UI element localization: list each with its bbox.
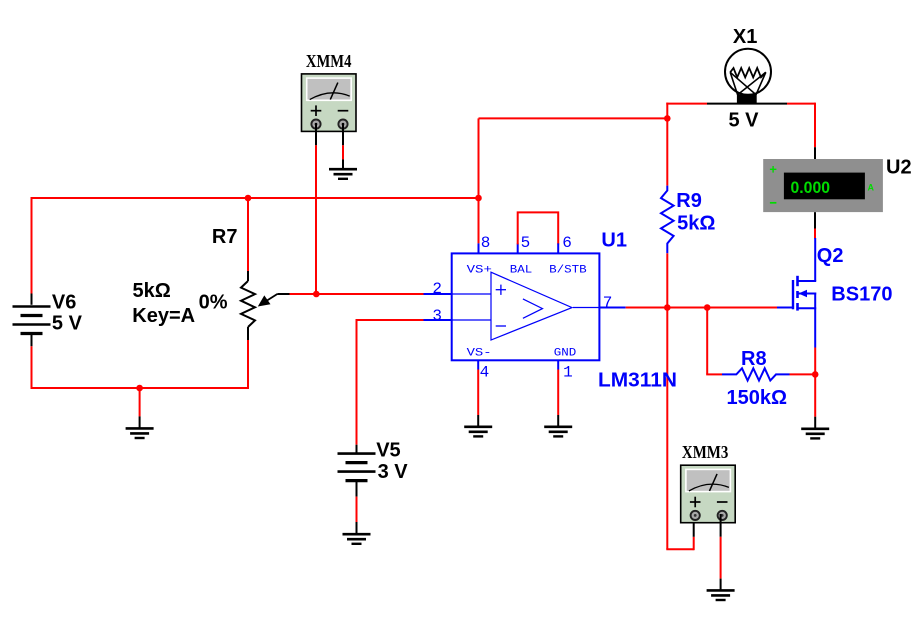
ground at pin1 (544, 425, 572, 428)
node wiper-XMM4 junction (313, 291, 320, 298)
ground at XMM4 (329, 168, 357, 171)
svg-text:R8: R8 (741, 348, 767, 370)
wire gate lead (707, 307, 777, 309)
svg-text:LM311N: LM311N (598, 370, 677, 392)
svg-text:X1: X1 (733, 26, 757, 48)
wire pin3 to V5 (424, 319, 452, 321)
wire Q2 source lead (814, 308, 816, 347)
svg-text:4: 4 (480, 364, 490, 382)
svg-text:150kΩ: 150kΩ (727, 387, 788, 409)
svg-text:1: 1 (563, 364, 573, 382)
svg-text:V6: V6 (52, 292, 76, 314)
svg-text:3: 3 (432, 307, 442, 325)
svg-text:A: A (868, 183, 875, 193)
svg-text:GND: GND (554, 347, 577, 359)
wire XMM3 minus lead (720, 514, 722, 537)
wire R8 left branch (706, 307, 708, 375)
wire R9 top lead (666, 117, 668, 186)
wiper arrow R7 (264, 294, 278, 303)
svg-text:0.000: 0.000 (791, 178, 831, 197)
ammeter U2 (763, 159, 883, 212)
svg-text:VS-: VS- (467, 347, 492, 359)
wire pin8 riser (478, 118, 480, 243)
wire XMM3 plus branch (666, 307, 668, 550)
svg-text:5 V: 5 V (52, 313, 83, 335)
ground at V5 (343, 533, 371, 536)
svg-text:XMM3: XMM3 (682, 442, 729, 462)
svg-text:VS+: VS+ (467, 264, 492, 276)
svg-text:B/STB: B/STB (549, 264, 587, 276)
wire lamp row (666, 103, 707, 105)
svg-text:Key=A: Key=A (132, 305, 195, 327)
wire pin7 output (599, 307, 625, 309)
node output-R9 junction (664, 304, 671, 311)
multimeter XMM4 (302, 74, 357, 131)
svg-text:7: 7 (603, 294, 613, 312)
node output-R8 junction (704, 304, 711, 311)
node R8-source junction (812, 371, 819, 378)
wire lamp left riser (666, 103, 668, 119)
ground at XMM3 (707, 589, 735, 592)
svg-text:2: 2 (432, 280, 442, 298)
node rail-R7 junction (245, 195, 252, 202)
wire XMM4 minus lead (342, 123, 344, 145)
op-amp U1 body (452, 253, 600, 360)
wire wiper to pin2 (277, 293, 289, 295)
svg-text:BAL: BAL (510, 264, 533, 276)
transistor Q2 (814, 238, 816, 281)
potentiometer R7 (241, 281, 255, 327)
wire XMM4 plus lead (315, 123, 317, 145)
wire bottom rail (31, 387, 250, 389)
wire R7 top lead (247, 197, 249, 271)
wire output to gate-branch (667, 307, 707, 309)
node bottom rail junction (136, 385, 143, 392)
wire R9 bottom lead (666, 253, 668, 307)
wire U2 top lead (814, 212, 816, 228)
lamp X1 (725, 49, 771, 95)
wire pin4 ground lead (477, 360, 479, 369)
wire pin1 ground lead (557, 360, 559, 369)
resistor R8 (722, 368, 790, 380)
node rail-pin8 junction (475, 195, 482, 202)
svg-text:U2: U2 (886, 156, 912, 178)
svg-text:U1: U1 (601, 230, 627, 252)
svg-text:R9: R9 (676, 190, 702, 212)
svg-text:0%: 0% (199, 292, 228, 314)
wire V5 negative lead (356, 482, 358, 497)
svg-text:Q2: Q2 (817, 245, 844, 267)
ground at pin4 (464, 425, 492, 428)
svg-text:5kΩ: 5kΩ (133, 280, 171, 302)
svg-text:5 V: 5 V (729, 110, 760, 132)
wire V6 negative lead (31, 335, 33, 347)
wire bottom ground stub (139, 388, 141, 416)
ground at bottom rail (126, 427, 154, 430)
svg-text:BS170: BS170 (831, 284, 892, 306)
svg-text:5kΩ: 5kΩ (677, 213, 715, 235)
node lamp-R9 junction (664, 115, 671, 122)
svg-text:6: 6 (562, 234, 572, 252)
multimeter XMM3 (681, 465, 736, 523)
wire BAL loop (517, 243, 519, 253)
svg-text:3 V: 3 V (378, 461, 409, 483)
battery V5 (338, 452, 376, 455)
svg-text:8: 8 (481, 234, 491, 252)
resistor R9 (661, 186, 674, 254)
svg-text:V5: V5 (376, 440, 400, 462)
wire V6 positive lead (31, 198, 33, 294)
wire upper rail to lamp (479, 117, 668, 119)
wire top rail (31, 197, 479, 199)
wire R8 right lead (790, 373, 816, 375)
svg-text:R7: R7 (212, 226, 238, 248)
svg-text:XMM4: XMM4 (306, 51, 352, 71)
svg-text:5: 5 (521, 234, 531, 252)
ground at Q2 source (801, 427, 829, 430)
battery V6 (13, 305, 51, 308)
wire R7 bottom lead (247, 327, 249, 340)
wire lamp right drop (814, 103, 816, 148)
